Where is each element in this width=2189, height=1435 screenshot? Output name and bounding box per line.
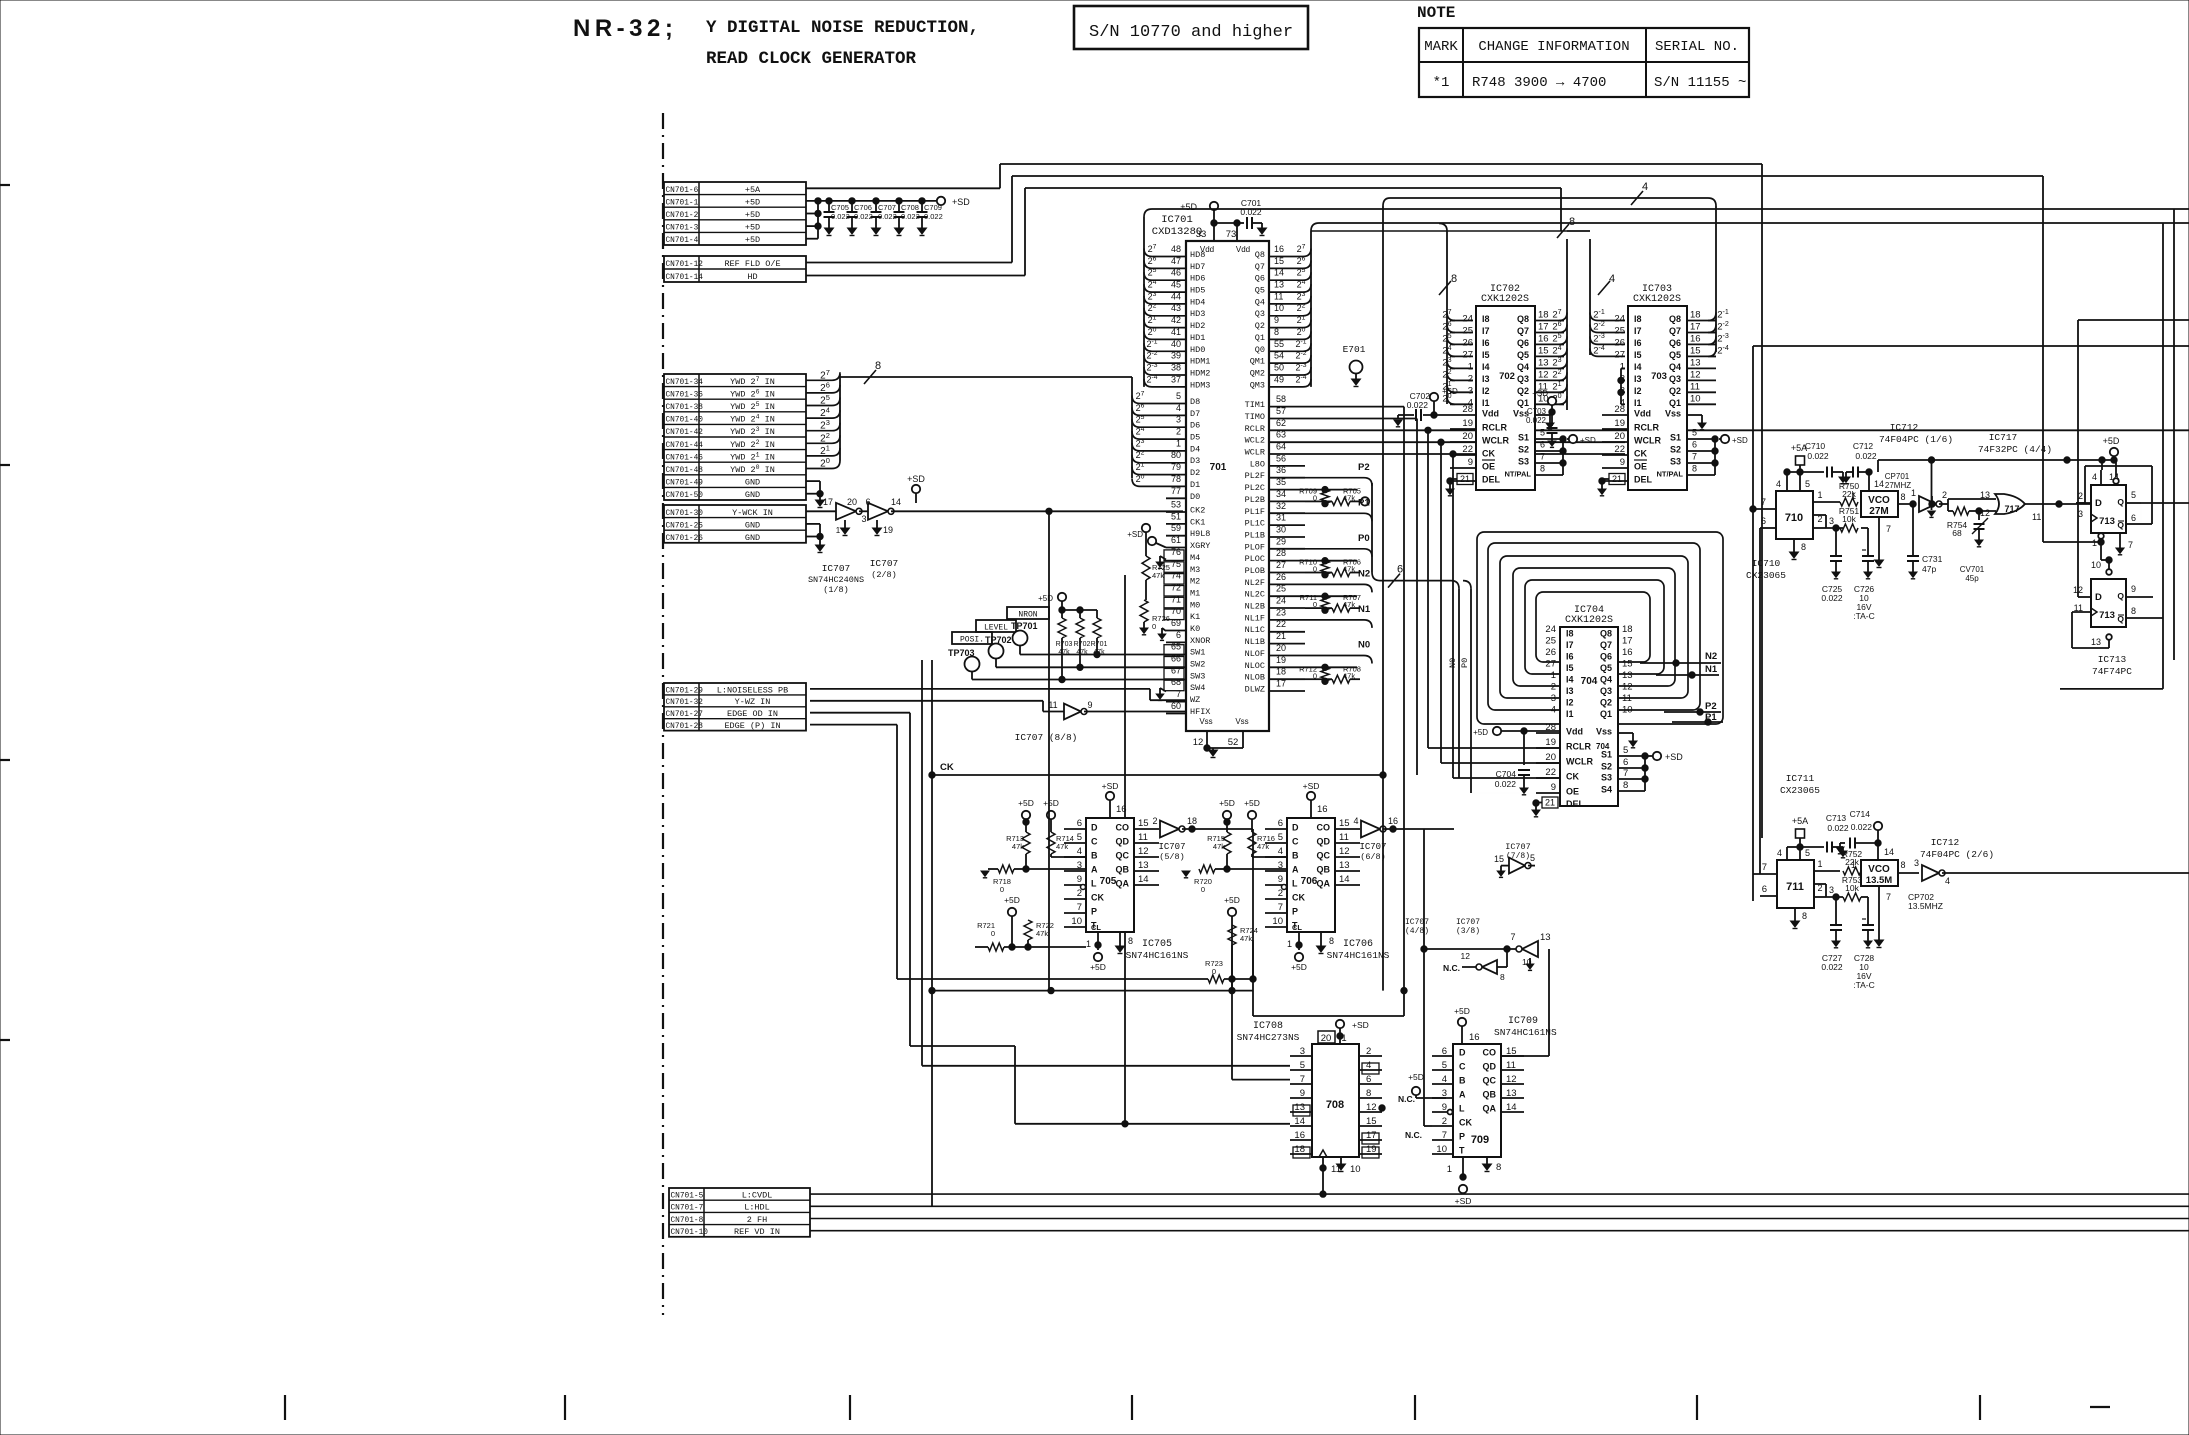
svg-text:(4/8): (4/8) bbox=[1405, 927, 1429, 936]
svg-text:27M: 27M bbox=[1869, 506, 1888, 517]
svg-text:4: 4 bbox=[1551, 705, 1556, 716]
svg-text:CN701-10: CN701-10 bbox=[671, 1229, 709, 1237]
svg-text:QD: QD bbox=[1483, 1062, 1497, 1072]
svg-text:SW3: SW3 bbox=[1190, 671, 1205, 681]
svg-text:YWD 23 IN: YWD 23 IN bbox=[730, 426, 775, 437]
svg-text:CK: CK bbox=[1482, 449, 1495, 459]
svg-text:CN701-32: CN701-32 bbox=[666, 699, 704, 707]
svg-text:H9L8: H9L8 bbox=[1190, 529, 1210, 539]
svg-text:2: 2 bbox=[1817, 883, 1822, 893]
svg-text:RCLR: RCLR bbox=[1482, 423, 1507, 433]
svg-text:1: 1 bbox=[836, 526, 841, 535]
svg-text:I7: I7 bbox=[1566, 640, 1574, 650]
svg-text:62: 62 bbox=[1276, 418, 1286, 428]
svg-text:24: 24 bbox=[1276, 596, 1286, 606]
svg-text:15: 15 bbox=[1494, 854, 1504, 864]
svg-text:Q5: Q5 bbox=[1517, 350, 1529, 360]
svg-text:QM2: QM2 bbox=[1250, 369, 1265, 379]
svg-text:18: 18 bbox=[1538, 310, 1549, 321]
svg-text:WCL2: WCL2 bbox=[1245, 436, 1265, 446]
svg-text:8: 8 bbox=[1496, 1162, 1501, 1173]
svg-text:P: P bbox=[1459, 1132, 1465, 1142]
svg-text:GND: GND bbox=[745, 520, 760, 530]
svg-text:NL2B: NL2B bbox=[1245, 602, 1265, 612]
svg-text:12: 12 bbox=[1461, 951, 1471, 961]
svg-text:POSI.: POSI. bbox=[960, 636, 984, 645]
svg-text:0: 0 bbox=[1201, 885, 1205, 894]
svg-text:0.022: 0.022 bbox=[1495, 779, 1517, 789]
svg-text:OE: OE bbox=[1482, 462, 1495, 472]
svg-text:25: 25 bbox=[1462, 326, 1473, 337]
svg-text:GND: GND bbox=[745, 478, 760, 488]
svg-text:40: 40 bbox=[1171, 339, 1181, 349]
svg-text:9: 9 bbox=[1274, 315, 1279, 325]
svg-text:CN701-4: CN701-4 bbox=[666, 237, 699, 245]
svg-text:53: 53 bbox=[1171, 500, 1181, 510]
svg-text:0: 0 bbox=[1000, 885, 1004, 894]
svg-text:2: 2 bbox=[1817, 514, 1822, 524]
svg-text:3: 3 bbox=[2078, 509, 2083, 519]
svg-text:CN701-2: CN701-2 bbox=[666, 212, 699, 220]
svg-text:+SD: +SD bbox=[1303, 781, 1320, 791]
svg-text:IC707 (8/8): IC707 (8/8) bbox=[1015, 732, 1078, 743]
svg-text:R703: R703 bbox=[1056, 641, 1073, 648]
svg-text:15: 15 bbox=[1339, 818, 1350, 829]
svg-text:CN701-29: CN701-29 bbox=[666, 687, 704, 695]
svg-text:6: 6 bbox=[1176, 630, 1181, 640]
svg-text:I3: I3 bbox=[1634, 374, 1642, 384]
svg-text:Q8: Q8 bbox=[1517, 314, 1529, 324]
svg-text:CL: CL bbox=[1091, 923, 1101, 932]
svg-text:I5: I5 bbox=[1566, 663, 1574, 673]
svg-text:I2: I2 bbox=[1566, 698, 1574, 708]
svg-text:D: D bbox=[2095, 498, 2102, 509]
svg-text:54: 54 bbox=[1274, 351, 1284, 361]
svg-text:OE: OE bbox=[1634, 462, 1647, 472]
svg-text:28: 28 bbox=[1276, 548, 1286, 558]
svg-text:REF FLD O/E: REF FLD O/E bbox=[724, 259, 780, 269]
svg-text:B: B bbox=[1459, 1076, 1466, 1086]
svg-text:0.022: 0.022 bbox=[1407, 400, 1429, 410]
svg-text::TA-C: :TA-C bbox=[1853, 611, 1875, 621]
svg-text:I4: I4 bbox=[1566, 675, 1574, 685]
svg-text:14: 14 bbox=[1274, 268, 1284, 278]
svg-text:C: C bbox=[1091, 837, 1098, 847]
svg-text:NL2F: NL2F bbox=[1245, 578, 1265, 588]
svg-text:Q7: Q7 bbox=[1255, 262, 1265, 272]
svg-text:SN74HC161NS: SN74HC161NS bbox=[1126, 950, 1189, 961]
svg-text:N.C.: N.C. bbox=[1405, 1130, 1422, 1140]
svg-text:YWD 22 IN: YWD 22 IN bbox=[730, 439, 775, 450]
svg-text:27: 27 bbox=[1614, 349, 1625, 360]
svg-text:QB: QB bbox=[1116, 865, 1130, 875]
svg-text:IC713: IC713 bbox=[2098, 654, 2127, 665]
svg-text:14: 14 bbox=[1339, 874, 1350, 885]
svg-text:CN701-14: CN701-14 bbox=[666, 274, 704, 282]
svg-text:(5/8): (5/8) bbox=[1159, 852, 1185, 862]
svg-text:Q8: Q8 bbox=[1600, 629, 1612, 639]
svg-text:I2: I2 bbox=[1634, 386, 1642, 396]
svg-text:+5D: +5D bbox=[1244, 798, 1260, 808]
svg-text:Q4: Q4 bbox=[1255, 297, 1265, 307]
svg-text:10: 10 bbox=[2091, 560, 2101, 570]
svg-text:Vdd: Vdd bbox=[1236, 245, 1250, 254]
svg-text:47k: 47k bbox=[1152, 571, 1164, 580]
svg-text:CP701: CP701 bbox=[1885, 472, 1910, 481]
svg-text:77: 77 bbox=[1171, 486, 1181, 496]
svg-text:+5D: +5D bbox=[745, 223, 760, 233]
svg-text:8: 8 bbox=[1569, 216, 1575, 228]
svg-text:47k: 47k bbox=[1343, 671, 1355, 680]
svg-text:0: 0 bbox=[1313, 565, 1317, 574]
svg-text:+SD: +SD bbox=[1102, 781, 1119, 791]
svg-text:13: 13 bbox=[1274, 280, 1284, 290]
svg-text:52: 52 bbox=[1228, 737, 1239, 748]
svg-text:CK: CK bbox=[1292, 893, 1305, 903]
svg-text:VCO: VCO bbox=[1868, 864, 1890, 875]
svg-text:NR-32;: NR-32; bbox=[573, 15, 677, 42]
svg-text:6: 6 bbox=[1077, 818, 1082, 829]
svg-text:709: 709 bbox=[1471, 1134, 1489, 1146]
svg-text:L:NOISELESS PB: L:NOISELESS PB bbox=[717, 685, 788, 695]
svg-text:GND: GND bbox=[745, 533, 760, 543]
svg-text:Q6: Q6 bbox=[1255, 274, 1265, 284]
svg-text:19: 19 bbox=[1462, 418, 1473, 429]
svg-text:21: 21 bbox=[1545, 798, 1555, 808]
svg-text:1: 1 bbox=[1468, 361, 1473, 372]
svg-text:+5D: +5D bbox=[2103, 436, 2120, 446]
svg-text:32: 32 bbox=[1276, 501, 1286, 511]
svg-text:CV701: CV701 bbox=[1960, 565, 1985, 574]
svg-text:S2: S2 bbox=[1518, 445, 1529, 455]
svg-text:+SD: +SD bbox=[1455, 1196, 1472, 1206]
svg-text:R748 3900 → 4700: R748 3900 → 4700 bbox=[1472, 75, 1606, 91]
svg-text:SW4: SW4 bbox=[1190, 683, 1205, 693]
svg-text:+5D: +5D bbox=[1224, 895, 1240, 905]
svg-text:47k: 47k bbox=[1058, 649, 1070, 656]
svg-text:I6: I6 bbox=[1634, 338, 1642, 348]
svg-text:6: 6 bbox=[1761, 516, 1766, 527]
svg-text:26: 26 bbox=[1614, 337, 1625, 348]
svg-text:A: A bbox=[1292, 865, 1299, 875]
svg-text:22: 22 bbox=[1545, 767, 1556, 778]
svg-text:5: 5 bbox=[1805, 848, 1810, 858]
svg-text:Q1: Q1 bbox=[1600, 709, 1612, 719]
svg-text:T: T bbox=[1459, 1146, 1465, 1156]
svg-text:4: 4 bbox=[1609, 273, 1615, 285]
svg-text:L: L bbox=[1091, 879, 1097, 889]
svg-text:CO: CO bbox=[1483, 1048, 1497, 1058]
svg-text:S1: S1 bbox=[1601, 750, 1612, 760]
svg-text:C708: C708 bbox=[901, 203, 919, 212]
svg-text:44: 44 bbox=[1171, 291, 1181, 301]
svg-text:L: L bbox=[1459, 1104, 1465, 1114]
svg-text:21: 21 bbox=[1612, 474, 1622, 484]
svg-text:7: 7 bbox=[1176, 689, 1181, 699]
svg-text:9: 9 bbox=[1087, 700, 1092, 710]
svg-text:0.022: 0.022 bbox=[1827, 823, 1849, 833]
svg-text:Vss: Vss bbox=[1235, 717, 1248, 726]
svg-text:18: 18 bbox=[1276, 667, 1286, 677]
svg-text:41: 41 bbox=[1171, 327, 1181, 337]
svg-text:(2/8): (2/8) bbox=[871, 570, 897, 580]
svg-text:Q6: Q6 bbox=[1669, 338, 1681, 348]
svg-text:Q3: Q3 bbox=[1669, 374, 1681, 384]
svg-text:7: 7 bbox=[1886, 892, 1891, 902]
svg-text:7: 7 bbox=[1510, 932, 1515, 942]
svg-text:8: 8 bbox=[1900, 860, 1905, 870]
svg-text:+5D: +5D bbox=[1291, 962, 1307, 972]
svg-text:0.022: 0.022 bbox=[1821, 593, 1843, 603]
svg-text:CN701-7: CN701-7 bbox=[671, 1205, 704, 1213]
svg-text:HDM3: HDM3 bbox=[1190, 380, 1210, 390]
svg-text:CN701-50: CN701-50 bbox=[666, 492, 704, 500]
svg-text:R702: R702 bbox=[1074, 641, 1091, 648]
svg-text:50: 50 bbox=[1274, 363, 1284, 373]
svg-text:QC: QC bbox=[1317, 851, 1331, 861]
svg-text:8: 8 bbox=[1500, 972, 1505, 982]
svg-text:6: 6 bbox=[1762, 884, 1767, 895]
svg-text:710: 710 bbox=[1785, 512, 1803, 524]
svg-text:76: 76 bbox=[1171, 547, 1181, 557]
svg-text:47k: 47k bbox=[1076, 649, 1088, 656]
svg-text:QB: QB bbox=[1483, 1090, 1497, 1100]
svg-text:29: 29 bbox=[1276, 536, 1286, 546]
svg-text:EDGE OD IN: EDGE OD IN bbox=[727, 709, 778, 719]
svg-text:8: 8 bbox=[1329, 936, 1334, 946]
svg-text:18: 18 bbox=[1187, 816, 1197, 826]
svg-text:8: 8 bbox=[2131, 606, 2136, 616]
svg-text:14: 14 bbox=[1138, 874, 1149, 885]
svg-text:8: 8 bbox=[1274, 327, 1279, 337]
svg-text:HD6: HD6 bbox=[1190, 274, 1205, 284]
svg-text:26: 26 bbox=[1545, 647, 1556, 658]
svg-text:4: 4 bbox=[1176, 403, 1181, 413]
svg-text:K0: K0 bbox=[1190, 624, 1200, 634]
svg-text:CN701-46: CN701-46 bbox=[666, 454, 704, 462]
svg-text:4: 4 bbox=[1776, 479, 1781, 489]
svg-text:IC712: IC712 bbox=[1890, 422, 1919, 433]
svg-text:IC710: IC710 bbox=[1752, 558, 1781, 569]
svg-text:PL1C: PL1C bbox=[1245, 519, 1265, 529]
svg-text:13: 13 bbox=[2091, 637, 2101, 647]
svg-text:19: 19 bbox=[1545, 737, 1556, 748]
svg-text:HD: HD bbox=[747, 272, 757, 282]
svg-text:8: 8 bbox=[1623, 780, 1628, 791]
svg-text:I6: I6 bbox=[1482, 338, 1490, 348]
svg-text:PL1B: PL1B bbox=[1245, 531, 1265, 541]
svg-text:1: 1 bbox=[1851, 860, 1856, 870]
svg-text:2 FH: 2 FH bbox=[747, 1215, 767, 1225]
svg-text:P1: P1 bbox=[1358, 498, 1370, 509]
svg-text:CK: CK bbox=[940, 762, 954, 773]
svg-text:713: 713 bbox=[2099, 516, 2115, 527]
svg-text:CN701-27: CN701-27 bbox=[666, 711, 704, 719]
svg-text:IC712: IC712 bbox=[1931, 837, 1960, 848]
svg-text:28: 28 bbox=[1462, 404, 1473, 415]
svg-text:7: 7 bbox=[1623, 768, 1628, 779]
svg-text:16: 16 bbox=[1538, 333, 1549, 344]
svg-text:I7: I7 bbox=[1634, 326, 1642, 336]
svg-text:12: 12 bbox=[1690, 369, 1701, 380]
svg-text:74F04PC (2/6): 74F04PC (2/6) bbox=[1920, 849, 1994, 860]
svg-text:25: 25 bbox=[1545, 636, 1556, 647]
svg-text:WCLR: WCLR bbox=[1245, 448, 1265, 458]
svg-text:0: 0 bbox=[1152, 622, 1156, 631]
svg-text:RCLR: RCLR bbox=[1566, 742, 1591, 752]
svg-text:10: 10 bbox=[1071, 916, 1082, 927]
svg-text:C707: C707 bbox=[878, 203, 896, 212]
svg-text:B: B bbox=[1091, 851, 1098, 861]
svg-text:55: 55 bbox=[1274, 339, 1284, 349]
svg-text:YWD 26 IN: YWD 26 IN bbox=[730, 388, 775, 399]
svg-text:NLOC: NLOC bbox=[1245, 661, 1265, 671]
svg-text:S/N 11155 ~: S/N 11155 ~ bbox=[1654, 75, 1746, 91]
svg-text:XGRY: XGRY bbox=[1190, 541, 1210, 551]
svg-text:XNOR: XNOR bbox=[1190, 636, 1210, 646]
svg-text:P2: P2 bbox=[1705, 701, 1717, 712]
svg-text:10: 10 bbox=[1274, 303, 1284, 313]
svg-text:S2: S2 bbox=[1670, 445, 1681, 455]
svg-text:3: 3 bbox=[1914, 858, 1919, 868]
svg-text:I5: I5 bbox=[1482, 350, 1490, 360]
svg-text:51: 51 bbox=[1171, 511, 1181, 521]
svg-text:Q6: Q6 bbox=[1517, 338, 1529, 348]
svg-text:15: 15 bbox=[1138, 818, 1149, 829]
svg-text:5: 5 bbox=[1530, 853, 1535, 863]
svg-text:+5D: +5D bbox=[1004, 895, 1020, 905]
svg-text:16: 16 bbox=[1274, 244, 1284, 254]
svg-text:36: 36 bbox=[1276, 465, 1286, 475]
svg-text:74F04PC (1/6): 74F04PC (1/6) bbox=[1879, 434, 1953, 445]
svg-text:47k: 47k bbox=[1036, 929, 1048, 938]
svg-text:N0: N0 bbox=[1358, 640, 1370, 651]
svg-text:20: 20 bbox=[1545, 752, 1556, 763]
svg-text:9: 9 bbox=[1468, 457, 1473, 468]
svg-text:+5D: +5D bbox=[1180, 202, 1197, 212]
svg-text:74: 74 bbox=[1171, 571, 1181, 581]
svg-text:PL2F: PL2F bbox=[1245, 471, 1265, 481]
svg-text:B: B bbox=[1292, 851, 1299, 861]
svg-text:HD2: HD2 bbox=[1190, 321, 1205, 331]
svg-text:CN701-44: CN701-44 bbox=[666, 442, 704, 450]
svg-text:13: 13 bbox=[1540, 932, 1551, 943]
svg-text:3: 3 bbox=[1176, 415, 1181, 425]
svg-text:D5: D5 bbox=[1190, 433, 1200, 443]
svg-text:+5D: +5D bbox=[745, 235, 760, 245]
svg-text:HD5: HD5 bbox=[1190, 286, 1205, 296]
svg-text:C705: C705 bbox=[831, 203, 849, 212]
svg-text:Q0: Q0 bbox=[1255, 345, 1265, 355]
svg-text:P0: P0 bbox=[1358, 533, 1370, 544]
svg-text:24: 24 bbox=[1614, 314, 1625, 325]
svg-text:WCLR: WCLR bbox=[1634, 436, 1661, 446]
svg-text:17: 17 bbox=[1538, 322, 1549, 333]
svg-text:19: 19 bbox=[883, 525, 893, 535]
svg-text:A: A bbox=[1459, 1090, 1466, 1100]
svg-text:6: 6 bbox=[1397, 564, 1403, 576]
svg-text:16: 16 bbox=[1116, 804, 1127, 815]
svg-text:2: 2 bbox=[1468, 373, 1473, 384]
svg-text:C706: C706 bbox=[854, 203, 872, 212]
svg-text:6: 6 bbox=[1540, 440, 1545, 450]
svg-text:*1: *1 bbox=[1433, 75, 1450, 91]
svg-text:27: 27 bbox=[1462, 349, 1473, 360]
svg-text:HFIX: HFIX bbox=[1190, 707, 1210, 717]
svg-text:80: 80 bbox=[1171, 450, 1181, 460]
svg-text:74F74PC: 74F74PC bbox=[2092, 666, 2132, 677]
svg-text:HDM2: HDM2 bbox=[1190, 369, 1210, 379]
svg-text:72: 72 bbox=[1171, 583, 1181, 593]
svg-text:13.5MHZ: 13.5MHZ bbox=[1908, 901, 1943, 911]
svg-text:13: 13 bbox=[1690, 357, 1701, 368]
svg-text:CN701-12: CN701-12 bbox=[666, 261, 704, 269]
svg-text:45: 45 bbox=[1171, 280, 1181, 290]
svg-text:HD3: HD3 bbox=[1190, 309, 1205, 319]
svg-text:I8: I8 bbox=[1566, 629, 1574, 639]
svg-text:C: C bbox=[1459, 1062, 1466, 1072]
svg-text:MARK: MARK bbox=[1424, 39, 1458, 55]
svg-text:57: 57 bbox=[1276, 406, 1286, 416]
svg-text:L8O: L8O bbox=[1250, 459, 1265, 469]
svg-text:Q2: Q2 bbox=[1669, 386, 1681, 396]
svg-text:CHANGE INFORMATION: CHANGE INFORMATION bbox=[1478, 39, 1629, 55]
svg-text:79: 79 bbox=[1171, 462, 1181, 472]
svg-text:7: 7 bbox=[1886, 524, 1891, 534]
svg-text:45p: 45p bbox=[1965, 574, 1979, 583]
svg-text:Q7: Q7 bbox=[1600, 640, 1612, 650]
svg-text:56: 56 bbox=[1276, 453, 1286, 463]
svg-text:49: 49 bbox=[1274, 374, 1284, 384]
svg-text:Q4: Q4 bbox=[1669, 362, 1681, 372]
svg-text:10: 10 bbox=[1272, 916, 1283, 927]
svg-text:0.022: 0.022 bbox=[1807, 451, 1829, 461]
svg-text:CN701-28: CN701-28 bbox=[666, 723, 704, 731]
svg-text:704: 704 bbox=[1581, 676, 1598, 687]
svg-text:7: 7 bbox=[1077, 902, 1082, 913]
svg-text:Q5: Q5 bbox=[1669, 350, 1681, 360]
svg-text:7: 7 bbox=[1761, 497, 1766, 508]
svg-text:IC707: IC707 bbox=[1158, 842, 1185, 852]
svg-text:31: 31 bbox=[1276, 513, 1286, 523]
svg-text:48: 48 bbox=[1171, 244, 1181, 254]
svg-text:30: 30 bbox=[1276, 525, 1286, 535]
svg-text:20: 20 bbox=[1276, 643, 1286, 653]
svg-text:13.5M: 13.5M bbox=[1866, 875, 1892, 886]
svg-text:6: 6 bbox=[1692, 440, 1697, 450]
svg-text:13: 13 bbox=[1622, 670, 1633, 681]
svg-text:IC707: IC707 bbox=[870, 558, 899, 569]
svg-text:Q2: Q2 bbox=[1600, 698, 1612, 708]
svg-text:YWD 24 IN: YWD 24 IN bbox=[730, 414, 775, 425]
svg-text:2: 2 bbox=[1176, 427, 1181, 437]
svg-text:HD0: HD0 bbox=[1190, 345, 1205, 355]
svg-text:+SD: +SD bbox=[907, 474, 925, 484]
svg-text:CK: CK bbox=[1634, 449, 1647, 459]
svg-text:CXK1202S: CXK1202S bbox=[1633, 294, 1681, 305]
svg-text:6: 6 bbox=[1278, 818, 1283, 829]
svg-text:(3/8): (3/8) bbox=[1456, 927, 1480, 936]
svg-text:21: 21 bbox=[1276, 631, 1286, 641]
svg-text:Vss: Vss bbox=[1665, 409, 1681, 419]
svg-text:27: 27 bbox=[1276, 560, 1286, 570]
svg-text:C731: C731 bbox=[1922, 554, 1943, 564]
svg-text:705: 705 bbox=[1100, 876, 1117, 887]
svg-text:N1: N1 bbox=[1705, 664, 1718, 675]
svg-text:CXK1202S: CXK1202S bbox=[1481, 294, 1529, 305]
svg-text:NT/PAL: NT/PAL bbox=[1504, 470, 1531, 479]
svg-text:D1: D1 bbox=[1190, 480, 1200, 490]
